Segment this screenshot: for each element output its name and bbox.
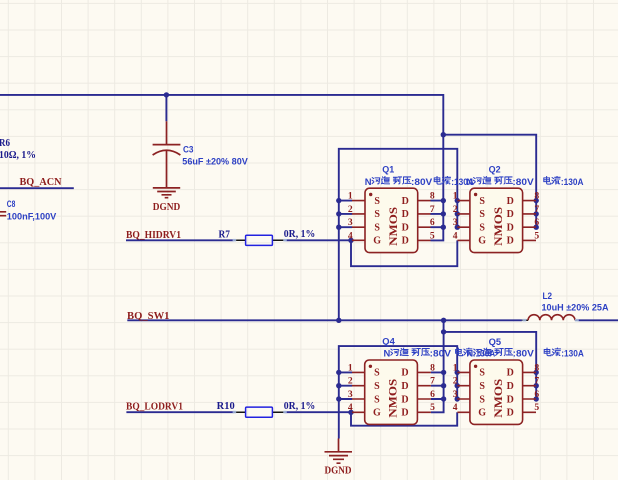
wire C3 tap (165, 95, 167, 121)
wire Q4 right stubs (431, 372, 444, 399)
svg-text:6: 6 (430, 389, 435, 400)
svg-text:G: G (478, 408, 486, 419)
svg-text:8: 8 (430, 362, 435, 373)
svg-text:D: D (401, 368, 408, 379)
svg-text:S: S (374, 394, 380, 405)
svg-text:D: D (401, 381, 408, 392)
svg-text:5: 5 (534, 402, 539, 413)
svg-text:1: 1 (348, 191, 353, 202)
svg-text:2: 2 (453, 204, 458, 215)
svg-text:D: D (507, 368, 514, 379)
node SW junctions (336, 318, 341, 323)
svg-text:4: 4 (348, 402, 353, 413)
svg-text:G: G (478, 236, 486, 247)
svg-text:8: 8 (430, 191, 435, 202)
svg-text:1: 1 (453, 191, 458, 202)
svg-text:G: G (373, 408, 381, 419)
svg-text:BQ_HIDRV1: BQ_HIDRV1 (126, 230, 181, 241)
node D branch (441, 132, 446, 137)
svg-text:D: D (402, 223, 409, 234)
svg-text:D: D (401, 408, 408, 419)
svg-text:0R, 1%: 0R, 1% (284, 229, 316, 240)
wire gate U bottom (Q4 gate to Q5 gate) (351, 412, 457, 425)
wire Q4 left stubs (339, 372, 352, 399)
svg-text:Q1: Q1 (382, 164, 395, 175)
svg-text:4: 4 (453, 402, 458, 413)
svg-text:BQ_ACN: BQ_ACN (20, 177, 63, 188)
svg-text:D: D (402, 236, 409, 247)
svg-text:S: S (479, 368, 485, 379)
svg-text:R10: R10 (217, 401, 235, 412)
svg-text:Q4: Q4 (382, 337, 395, 348)
svg-text:6: 6 (430, 217, 435, 228)
svg-text:2: 2 (348, 204, 353, 215)
node Q5 S pins (455, 370, 460, 375)
node Q2 D pins (534, 198, 539, 203)
svg-text:S: S (374, 368, 380, 379)
svg-text:8: 8 (534, 362, 539, 373)
svg-text:S: S (479, 196, 485, 207)
wire gate U top (Q1 gate to Q2 gate) (351, 240, 457, 266)
svg-text:3: 3 (348, 217, 353, 228)
wire SW right of L2 (577, 319, 618, 321)
svg-text:NMOS: NMOS (388, 379, 400, 418)
svg-text:C3: C3 (183, 145, 194, 156)
svg-text:1: 1 (453, 362, 458, 373)
wire Q1 left stubs (339, 201, 352, 228)
svg-text:3: 3 (453, 389, 458, 400)
wire Q1 right stubs (430, 201, 443, 228)
wire branch to Q5 D (444, 332, 537, 399)
svg-text:D: D (507, 209, 514, 220)
svg-text:D: D (507, 196, 514, 207)
svg-text:S: S (479, 381, 485, 392)
svg-text:2: 2 (453, 376, 458, 387)
svg-text:R6: R6 (0, 138, 10, 149)
svg-text:5: 5 (534, 230, 539, 241)
svg-text:1: 1 (348, 362, 353, 373)
svg-text:R7: R7 (219, 229, 231, 240)
svg-text:0R, 1%: 0R, 1% (284, 401, 316, 412)
svg-text:7: 7 (430, 376, 435, 387)
svg-text:BQ_LODRV1: BQ_LODRV1 (126, 401, 183, 412)
svg-text:S: S (479, 209, 485, 220)
node C3 tap (164, 92, 169, 97)
svg-text:D: D (507, 223, 514, 234)
svg-text:5: 5 (430, 402, 435, 413)
svg-text:Q2: Q2 (489, 164, 501, 175)
svg-text:10Ω, 1%: 10Ω, 1% (0, 150, 36, 161)
svg-text:7: 7 (534, 376, 539, 387)
node Q1 gate (348, 238, 353, 243)
svg-text:7: 7 (534, 204, 539, 215)
node Q2 S pins (455, 198, 460, 203)
svg-text:3: 3 (348, 389, 353, 400)
svg-text:D: D (507, 408, 514, 419)
svg-text:D: D (507, 394, 514, 405)
svg-text:NMOS: NMOS (493, 207, 505, 246)
wire BQ_HIDRV1 right of R7 (285, 239, 351, 241)
svg-text:8: 8 (534, 191, 539, 202)
svg-text:DGND: DGND (153, 202, 181, 213)
svg-text:S: S (374, 223, 380, 234)
wire BQ_HIDRV1 left of R7 (126, 239, 234, 241)
svg-text:5: 5 (430, 230, 435, 241)
node Q5 D pins (534, 370, 539, 375)
wire D branch to Q2 (443, 135, 536, 228)
svg-text:D: D (402, 209, 409, 220)
svg-text:C8: C8 (7, 199, 16, 210)
node Q4 gate (348, 410, 353, 415)
svg-text:56uF ±20% 80V: 56uF ±20% 80V (182, 157, 248, 168)
svg-text:D: D (402, 196, 409, 207)
node Q1 D pins (441, 198, 446, 203)
svg-text:6: 6 (534, 217, 539, 228)
wire BQ_LODRV1 right of R10 (285, 411, 351, 413)
svg-text:100nF,100V: 100nF,100V (7, 212, 57, 223)
svg-text:7: 7 (430, 204, 435, 215)
svg-text:L2: L2 (543, 291, 553, 302)
wire SW drop to Q4 D bus + Q4 pin5 stub (431, 320, 444, 412)
svg-text:10uH ±20% 25A: 10uH ±20% 25A (542, 303, 609, 314)
wire S rail top + Q1 S bus + Q2 S bus (339, 149, 458, 320)
svg-text:S: S (374, 381, 380, 392)
wire main VIN horizontal + drop to D bus + Q1 pin5 stub (0, 95, 443, 241)
wire S rail bottom + Q4 S bus to DGND + Q5 S bus (339, 346, 457, 438)
wire BQ_ACN (0, 187, 74, 189)
svg-text:4: 4 (348, 230, 353, 241)
node Q1 S pins (336, 198, 341, 203)
svg-text:G: G (373, 236, 381, 247)
svg-text:Q5: Q5 (489, 337, 502, 348)
svg-text:S: S (374, 196, 380, 207)
node Q4 D pins (441, 370, 446, 375)
svg-text:NMOS: NMOS (388, 207, 400, 246)
svg-text:NMOS: NMOS (493, 379, 505, 418)
svg-text:4: 4 (453, 230, 458, 241)
svg-text:S: S (479, 223, 485, 234)
svg-text:BQ_SW1: BQ_SW1 (127, 311, 170, 322)
svg-text:2: 2 (348, 376, 353, 387)
svg-text:D: D (507, 236, 514, 247)
svg-text:S: S (374, 209, 380, 220)
svg-text:D: D (401, 394, 408, 405)
svg-text:D: D (507, 381, 514, 392)
node Q4 S pins (336, 370, 341, 375)
svg-text:3: 3 (453, 217, 458, 228)
svg-text:6: 6 (534, 389, 539, 400)
svg-text:DGND: DGND (325, 466, 352, 477)
wire BQ_LODRV1 left of R10 (126, 411, 234, 413)
svg-text:S: S (479, 394, 485, 405)
wire BQ_SW1 (127, 319, 522, 321)
pin hotspot marks (233, 239, 579, 414)
